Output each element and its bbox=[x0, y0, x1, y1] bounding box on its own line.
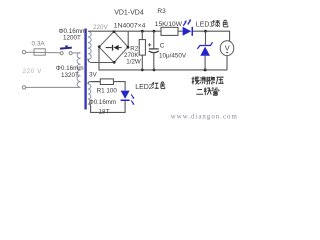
LED1 bbox=[183, 27, 192, 36]
bridge diode symbol bbox=[106, 47, 112, 49]
hanzi bei bbox=[192, 77, 199, 85]
hanzi guan bbox=[212, 87, 219, 95]
bridge rectifier VD1-VD4 bbox=[99, 32, 128, 63]
transformer core bbox=[84, 29, 86, 110]
svg-text:220 V: 220 V bbox=[23, 68, 43, 75]
node (bridge top corner, + output) bbox=[113, 30, 116, 33]
transformer secondary winding 220V bbox=[88, 31, 91, 59]
fuse 0.3A bbox=[34, 49, 45, 55]
switch S bbox=[60, 52, 63, 55]
hanzi hong (red) bbox=[152, 82, 158, 88]
svg-text:LED2: LED2 bbox=[135, 84, 153, 91]
svg-text:1/2W: 1/2W bbox=[126, 59, 141, 66]
diode VDx zener under test bbox=[205, 31, 207, 45]
junction (R2 bottom on - bus) bbox=[141, 69, 144, 72]
LED2 bbox=[121, 91, 130, 99]
svg-text:VD1-VD4: VD1-VD4 bbox=[114, 10, 144, 17]
wire (R1 to LED2 anode) bbox=[113, 82, 125, 91]
wire (bridge right corner riser) bbox=[127, 31, 129, 47]
svg-text:0.3A: 0.3A bbox=[32, 41, 46, 48]
hanzi ce bbox=[200, 77, 208, 85]
wire (switch to primary winding) bbox=[72, 52, 80, 54]
transformer secondary winding 18T bbox=[88, 84, 91, 104]
resistor R3 bbox=[161, 27, 178, 35]
svg-text:18T: 18T bbox=[99, 108, 110, 115]
svg-text:V: V bbox=[225, 43, 230, 52]
hanzi ji bbox=[204, 87, 211, 95]
hanzi wen bbox=[208, 77, 215, 85]
label bei ce wen ya (zener under test) bbox=[192, 77, 224, 96]
svg-text:R1 100: R1 100 bbox=[97, 88, 118, 95]
transformer T primary winding bbox=[77, 53, 81, 88]
junction (R2 top on + bus) bbox=[141, 30, 144, 33]
svg-text:1320T: 1320T bbox=[61, 72, 79, 79]
svg-text:15K/10W: 15K/10W bbox=[155, 21, 183, 28]
hanzi ya bbox=[216, 77, 223, 84]
terminal (mains top) bbox=[22, 51, 25, 54]
top bus wire bbox=[88, 30, 161, 32]
junction (zener cathode on + bus) bbox=[204, 30, 207, 33]
capacitor C bbox=[153, 31, 155, 48]
junction (C bottom on - bus) bbox=[153, 69, 156, 72]
voltmeter V bbox=[220, 41, 234, 56]
svg-text:220V: 220V bbox=[93, 24, 109, 31]
hanzi se (color) bbox=[223, 20, 228, 27]
terminal (mains bottom) bbox=[22, 86, 25, 89]
node (bridge bottom corner) bbox=[113, 61, 116, 64]
svg-text:LED1: LED1 bbox=[196, 22, 214, 29]
wire (secondary bottom lead) bbox=[88, 59, 114, 63]
junction (zener anode on - bus) bbox=[204, 68, 207, 71]
svg-text:C: C bbox=[160, 42, 165, 49]
svg-text:10μ/450V: 10μ/450V bbox=[159, 53, 187, 60]
wire (LED2 cathode loop to 18T winding) bbox=[88, 101, 125, 112]
svg-text:Φ0.16mm: Φ0.16mm bbox=[56, 65, 84, 72]
svg-text:www.diangon.com: www.diangon.com bbox=[171, 114, 238, 121]
wire (mains bottom lead) bbox=[26, 86, 80, 88]
resistor R1 bbox=[91, 81, 100, 83]
hanzi er bbox=[196, 90, 203, 95]
svg-text:1N4007×4: 1N4007×4 bbox=[114, 22, 146, 29]
junction (C top on + bus) bbox=[153, 30, 156, 33]
wire (18T top lead) bbox=[88, 82, 100, 84]
resistor R2 bbox=[141, 31, 143, 39]
svg-text:R3: R3 bbox=[157, 8, 166, 15]
hanzi se (color) bbox=[161, 82, 165, 89]
wire (left corner riser + bottom bus) bbox=[99, 47, 227, 70]
svg-text:1200T: 1200T bbox=[63, 34, 81, 41]
wire (mains top lead to fuse) bbox=[26, 51, 60, 54]
svg-text:3V: 3V bbox=[89, 72, 98, 79]
hanzi lv (green) bbox=[212, 20, 220, 27]
wire (voltmeter bottom lead) bbox=[226, 56, 228, 70]
svg-text:Φ0.16mm: Φ0.16mm bbox=[89, 99, 116, 106]
node (bridge left corner) bbox=[98, 45, 101, 48]
node (bridge right corner) bbox=[127, 46, 130, 49]
